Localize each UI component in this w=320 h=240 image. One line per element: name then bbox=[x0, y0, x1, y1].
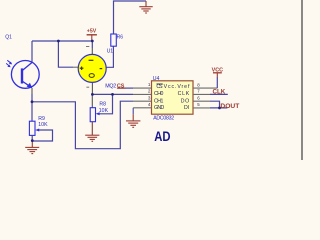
wire: sensor right pin to R6 bottom bbox=[106, 46, 113, 67]
sensor mark left plus bbox=[80, 67, 84, 69]
svg-text:R8: R8 bbox=[99, 101, 106, 107]
wire: main horizontal node A (Q1 collector to +5V) bbox=[32, 40, 92, 42]
sensor U1 (MQ-2 gas sensor circle) bbox=[78, 47, 106, 88]
svg-text:AD: AD bbox=[154, 128, 170, 144]
wire: R8 top lead bbox=[91, 94, 93, 107]
wire: Q1 emitter down to R9 bbox=[31, 94, 33, 121]
wire: R6 top to top rail bbox=[114, 1, 147, 34]
pin: sensor left pin stub bbox=[73, 66, 79, 68]
junction node A dot at x58 bbox=[57, 40, 60, 43]
power +5V bbox=[87, 29, 97, 41]
svg-text:DOUT: DOUT bbox=[220, 103, 240, 110]
pin 1 CS stub bbox=[133, 87, 152, 89]
pin 8 Vcc stub bbox=[193, 87, 217, 89]
ground GND3 below R8 bbox=[85, 122, 99, 142]
R9 wiper arrowhead bbox=[35, 129, 39, 132]
svg-text:3: 3 bbox=[148, 95, 151, 100]
junction dot R9 bottom bbox=[31, 139, 34, 142]
pin 2 CH0 stub bbox=[133, 93, 152, 95]
junction dot R8 wiper / CH0 bbox=[111, 93, 114, 96]
wire: sensor top pin to node A bbox=[91, 41, 93, 48]
pin 5 DI stub bbox=[193, 107, 210, 109]
ground GND1 top right bbox=[139, 1, 152, 13]
svg-text:Q1: Q1 bbox=[5, 35, 12, 41]
wire: DOUT net at pin 5 bbox=[210, 107, 227, 109]
transistor Q1 (photo-transistor) bbox=[11, 61, 39, 89]
svg-text:CLK: CLK bbox=[213, 88, 226, 95]
R8 wiper arrowhead bbox=[96, 112, 100, 115]
svg-text:10K: 10K bbox=[99, 108, 109, 114]
junction dot DO/DI tie bbox=[218, 107, 221, 110]
svg-text:+5V: +5V bbox=[87, 29, 97, 35]
pin 3 CH1 stub bbox=[133, 100, 152, 102]
svg-text:CLK: CLK bbox=[178, 91, 190, 97]
resistor R9 (pot) bbox=[29, 121, 35, 135]
wire: sensor bottom node to CH0 (pin2) bbox=[92, 93, 133, 95]
svg-text:U4: U4 bbox=[153, 76, 160, 82]
svg-text:CS: CS bbox=[156, 84, 163, 90]
svg-text:GND: GND bbox=[154, 105, 164, 111]
wire: CLK net at pin 7 bbox=[210, 93, 228, 95]
wire: MQ2CS net to pin1 bbox=[118, 87, 134, 89]
junction node A dot at +5V bbox=[91, 40, 94, 43]
ground GND2 below R9 bbox=[25, 141, 39, 154]
svg-text:1: 1 bbox=[148, 82, 151, 87]
pin: Q1 emitter stub bbox=[31, 88, 33, 94]
op IC U4 ADC0832 body bbox=[152, 81, 194, 114]
power VCC at pin 8 bbox=[212, 67, 223, 88]
pin: sensor top pin stub bbox=[91, 48, 93, 55]
ground GND4 at pin 4 bbox=[126, 108, 140, 128]
sensor pin mark near top pin bbox=[86, 46, 89, 48]
pin 4 GND stub bbox=[133, 107, 151, 109]
junction dot sensor bottom / CH0 bbox=[91, 93, 94, 96]
resistor R6 bbox=[111, 34, 117, 46]
svg-text:DI: DI bbox=[184, 105, 189, 111]
svg-text:MQ2: MQ2 bbox=[105, 83, 116, 89]
window edge line right bbox=[301, 0, 303, 160]
svg-text:DO: DO bbox=[181, 98, 189, 104]
pin: sensor bottom pin stub bbox=[91, 82, 93, 95]
svg-text:Vcc.Vref: Vcc.Vref bbox=[164, 84, 190, 90]
svg-text:CH0: CH0 bbox=[154, 91, 164, 97]
svg-text:U1: U1 bbox=[107, 48, 114, 54]
sensor pin mark near bottom pin bbox=[86, 86, 89, 88]
svg-text:4: 4 bbox=[148, 102, 151, 107]
sensor mark right dash bbox=[100, 68, 103, 70]
svg-text:VCC: VCC bbox=[212, 67, 223, 73]
sensor mark bottom ellipse bbox=[89, 74, 94, 78]
svg-text:R6: R6 bbox=[117, 34, 124, 40]
sensor mark top dash bbox=[89, 59, 94, 61]
wire: CH1 routing from Q1 emitter node around bottom to pin3 bbox=[32, 101, 133, 149]
pin 7 CLK stub bbox=[193, 93, 210, 95]
svg-text:CH1: CH1 bbox=[154, 98, 164, 104]
resistor R8 (pot) bbox=[90, 108, 95, 122]
svg-text:2: 2 bbox=[148, 89, 151, 94]
wire: R9 wiper hook to bottom bbox=[32, 130, 52, 141]
svg-text:10K: 10K bbox=[38, 122, 48, 128]
svg-text:ADC0832: ADC0832 bbox=[153, 115, 174, 121]
pin 6 DO stub bbox=[193, 100, 210, 102]
junction dot Q1 emitter / CH1 bbox=[31, 100, 34, 103]
wire: R9 bottom lead bbox=[31, 135, 33, 140]
Q1 light arrows bbox=[6, 60, 12, 67]
wire: DO jog down to DI bbox=[210, 101, 220, 108]
wire: R8 wiper hook to CH0 net bbox=[98, 94, 112, 113]
wire: sensor left branch down from node A bbox=[58, 41, 73, 67]
wire: Q1 collector vertical bbox=[31, 41, 33, 63]
